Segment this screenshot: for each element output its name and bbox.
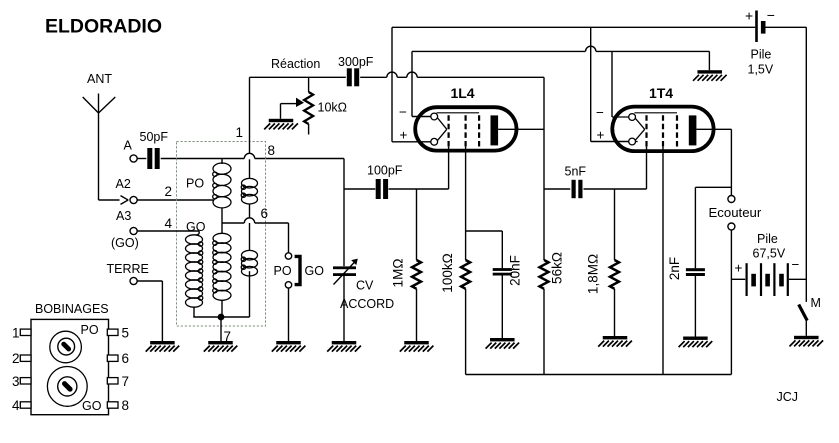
svg-text:Pile: Pile: [751, 48, 772, 62]
svg-text:5: 5: [122, 325, 130, 340]
wire switch to ground: [288, 288, 290, 341]
wire pin8 row: [161, 158, 344, 160]
label 100pF: [367, 164, 403, 178]
svg-text:Réaction: Réaction: [271, 57, 320, 71]
potentiometer 10kΩ: [281, 77, 314, 134]
svg-text:Ecouteur: Ecouteur: [709, 205, 762, 220]
wire top rail: [392, 26, 755, 28]
terminal A3: [130, 227, 137, 234]
label 56kΩ: [550, 252, 565, 284]
label 1L4 plus: [400, 128, 408, 143]
svg-text:M: M: [811, 296, 821, 310]
resistor 56kΩ: [540, 260, 549, 289]
terminal A2: [130, 196, 137, 203]
wire pin6 to switch: [222, 223, 289, 253]
capacitor 5nF: [572, 180, 583, 198]
label 1L4: [450, 85, 474, 101]
capacitor 300pF: [347, 68, 359, 86]
label Ecouteur: [709, 205, 762, 220]
svg-text:CV: CV: [356, 279, 374, 293]
label CV: [356, 279, 374, 293]
svg-text:8: 8: [122, 398, 130, 413]
svg-text:ELDORADIO: ELDORADIO: [45, 16, 162, 38]
resistor 100kΩ: [461, 260, 470, 289]
svg-text:−: −: [596, 105, 604, 120]
resistor 1,8MΩ: [610, 189, 619, 336]
svg-text:GO: GO: [186, 220, 206, 234]
wire 1L4 minus drop: [412, 51, 431, 116]
switch PO/GO contact top: [285, 253, 291, 259]
wire 1L4 plus drop: [392, 27, 431, 142]
label JCJ: [777, 390, 799, 404]
svg-text:100kΩ: 100kΩ: [440, 253, 455, 292]
label pin 6: [261, 206, 269, 221]
ground 1,8MΩ: [598, 336, 632, 347]
label 1MΩ: [391, 259, 406, 288]
label Pile 67,5V: [753, 232, 786, 261]
hop reaction over 1L4 plus: [407, 72, 417, 77]
label 100kΩ: [440, 253, 455, 292]
svg-text:−: −: [399, 105, 407, 120]
svg-text:1: 1: [236, 125, 244, 140]
svg-text:20nF: 20nF: [508, 255, 523, 286]
wire 1T4 plate: [696, 128, 731, 130]
svg-text:+: +: [597, 128, 605, 143]
label Réaction: [271, 57, 320, 71]
label A2: [116, 177, 131, 191]
svg-text:300pF: 300pF: [338, 55, 374, 69]
hop reaction over 1L4 minus: [387, 72, 397, 77]
label 20nF: [508, 255, 523, 286]
svg-text:1T4: 1T4: [649, 85, 673, 101]
wire rail2: [412, 51, 709, 70]
label pin 8: [268, 143, 276, 158]
svg-text:1: 1: [12, 325, 20, 340]
capacitor 2nF: [686, 268, 705, 276]
wire M to ground: [805, 321, 807, 336]
svg-text:100pF: 100pF: [367, 164, 403, 178]
wire 1T4 g2 down: [662, 147, 664, 375]
svg-text:8: 8: [268, 143, 276, 158]
ground 2nF: [679, 337, 713, 348]
coil GO primary (left column): [137, 231, 203, 317]
label - battery67: [792, 257, 800, 272]
wire A to 50pF: [137, 158, 146, 160]
svg-text:A2: A2: [116, 177, 131, 191]
svg-text:1,8MΩ: 1,8MΩ: [586, 254, 601, 294]
wire 100pF left: [344, 188, 375, 190]
wire 1T4 minus drop: [611, 51, 613, 117]
label 5nF: [565, 165, 587, 179]
label 300pF: [338, 55, 374, 69]
label 1T4 minus: [596, 105, 604, 120]
wire plate node vertical: [543, 77, 545, 374]
switch PO/GO contact bottom: [285, 282, 291, 288]
svg-text:ACCORD: ACCORD: [340, 297, 394, 311]
hop pin8 wire over reaction wire: [244, 153, 254, 158]
wire coil commons to node 7: [193, 316, 249, 318]
svg-text:1MΩ: 1MΩ: [391, 259, 406, 288]
label GO in box: [186, 220, 206, 234]
tube 1L4 (pentode): [415, 107, 516, 150]
label A3: [116, 209, 131, 223]
hop pin6 wire over reaction coil: [244, 218, 254, 223]
svg-text:10kΩ: 10kΩ: [318, 101, 348, 115]
wire 2nF to ground: [694, 276, 696, 337]
svg-text:A: A: [124, 139, 133, 153]
wire g2 to 20nF: [466, 231, 503, 268]
ground node 7: [204, 341, 238, 352]
label GO bobinages: [82, 399, 102, 413]
coil PO secondary (middle top): [213, 159, 231, 234]
label 1T4: [649, 85, 673, 101]
label pin 4: [165, 216, 173, 231]
svg-text:2nF: 2nF: [667, 257, 682, 280]
ground 20nF: [486, 338, 519, 349]
svg-text:+: +: [400, 128, 408, 143]
bobinages pin numbers left: [12, 325, 20, 413]
label PO bobinages: [81, 323, 99, 337]
wire 1L4 g2 down: [465, 147, 467, 260]
wire plate node to 5nF: [544, 188, 570, 190]
svg-text:+: +: [745, 8, 753, 24]
coil reaction GO (right bottom): [241, 250, 257, 317]
wire 2nF branch: [695, 187, 731, 268]
terminal Ecouteur bottom: [728, 223, 735, 230]
bobinages pin numbers right: [122, 325, 130, 413]
svg-text:−: −: [767, 7, 775, 23]
svg-text:GO: GO: [305, 264, 325, 278]
svg-text:−: −: [792, 257, 800, 272]
svg-text:50pF: 50pF: [140, 130, 169, 144]
svg-text:Pile: Pile: [757, 232, 778, 246]
ground potentiometer wiper: [264, 119, 298, 130]
svg-text:4: 4: [165, 216, 173, 231]
battery Pile 67,5V: [746, 263, 807, 296]
label + battery1: [745, 8, 753, 24]
capacitor 100pF: [376, 179, 388, 199]
wire 100pF to 1L4 g1: [389, 147, 449, 189]
svg-text:JCJ: JCJ: [777, 390, 799, 404]
coil box outline (bobinage): [177, 142, 266, 327]
wire reaction vertical to coil: [249, 77, 251, 153]
svg-text:1L4: 1L4: [450, 85, 474, 101]
capacitor 50pF: [147, 148, 159, 169]
junction node 7: [218, 314, 225, 321]
ground TERRE: [146, 341, 180, 352]
label PO in box: [186, 177, 204, 191]
label PO switch: [274, 264, 292, 278]
resistor 1MΩ: [412, 189, 421, 341]
wire 1L4 plate: [498, 128, 544, 130]
wire 1T4 plus drop: [591, 27, 629, 141]
title ELDORADIO: [45, 16, 162, 38]
switch M arm: [799, 305, 808, 321]
label 10kΩ: [318, 101, 348, 115]
label pin 7: [224, 329, 232, 344]
svg-text:1,5V: 1,5V: [748, 63, 774, 77]
capacitor 20nF: [493, 268, 512, 275]
ground switch: [272, 341, 306, 352]
label GO switch: [305, 264, 325, 278]
label ANT: [87, 72, 112, 86]
wire HT rail: [466, 374, 732, 376]
svg-text:A3: A3: [116, 209, 131, 223]
wire A2 to coil pin2: [137, 199, 213, 201]
svg-text:6: 6: [261, 206, 269, 221]
svg-text:GO: GO: [82, 399, 102, 413]
svg-text:(GO): (GO): [111, 236, 139, 250]
coil reaction PO (right top): [241, 159, 257, 250]
wire battery67 plus: [731, 278, 745, 280]
wire 20nF to ground: [501, 275, 503, 338]
wire reaction: [250, 76, 545, 78]
hop rail2 over 1T4 plus: [586, 46, 596, 51]
svg-text:PO: PO: [274, 264, 292, 278]
svg-text:ANT: ANT: [87, 72, 112, 86]
label + battery67: [735, 261, 743, 276]
bobinages package box: [31, 319, 109, 414]
svg-text:7: 7: [122, 374, 130, 389]
ground rail2: [693, 70, 727, 81]
svg-text:56kΩ: 56kΩ: [550, 252, 565, 284]
label (GO): [111, 236, 139, 250]
svg-text:5nF: 5nF: [565, 165, 587, 179]
svg-text:BOBINAGES: BOBINAGES: [35, 302, 109, 316]
bobinages GO trimmer: [47, 367, 87, 407]
svg-text:PO: PO: [186, 177, 204, 191]
bobinages PO trimmer: [50, 331, 82, 363]
label ACCORD: [340, 297, 394, 311]
label 1T4 plus: [597, 128, 605, 143]
svg-text:3: 3: [12, 374, 20, 389]
wire 5nF to 1T4 g1: [584, 147, 647, 189]
tube 1T4 (pentode): [612, 107, 714, 152]
label M: [811, 296, 821, 310]
label pin 2: [165, 184, 173, 199]
ground 1MΩ: [400, 341, 434, 352]
label 1L4 minus: [399, 105, 407, 120]
svg-text:TERRE: TERRE: [107, 262, 149, 276]
bobinages pins left: [20, 329, 31, 408]
label Pile 1,5V: [748, 48, 774, 77]
wire CV top: [343, 189, 345, 266]
svg-text:+: +: [735, 261, 743, 276]
variable capacitor CV ACCORD: [333, 259, 358, 341]
label BOBINAGES: [35, 302, 109, 316]
switch PO/GO bar: [295, 256, 300, 284]
bobinages pins right: [107, 329, 118, 408]
antenna ANT symbol: [83, 94, 129, 205]
terminal TERRE: [130, 277, 137, 284]
terminal A: [124, 139, 138, 163]
label 50pF: [140, 130, 169, 144]
label - battery1: [767, 7, 775, 23]
svg-text:2: 2: [12, 351, 20, 366]
wire node7 to ground: [220, 317, 222, 341]
wire 1T4 plate down: [730, 129, 732, 195]
svg-text:6: 6: [122, 351, 130, 366]
label TERRE: [107, 262, 149, 276]
battery Pile 1,5V: [755, 11, 806, 43]
wire TERRE to ground: [137, 281, 162, 341]
wire 100k to rail3: [465, 289, 467, 375]
ground M switch: [790, 336, 824, 347]
ground CV: [327, 341, 361, 352]
wire battery minus down: [805, 27, 807, 302]
wire Ecouteur bottom down: [730, 230, 732, 375]
svg-text:2: 2: [165, 184, 173, 199]
label pin 1: [236, 125, 244, 140]
label 1,8MΩ: [586, 254, 601, 294]
terminal Ecouteur top: [728, 196, 735, 203]
svg-text:67,5V: 67,5V: [753, 247, 786, 261]
svg-text:4: 4: [12, 398, 20, 413]
coil GO secondary (middle bottom): [213, 233, 231, 317]
wire pin8 node down to 100pF: [343, 159, 345, 190]
label 2nF: [667, 257, 682, 280]
svg-text:PO: PO: [81, 323, 99, 337]
